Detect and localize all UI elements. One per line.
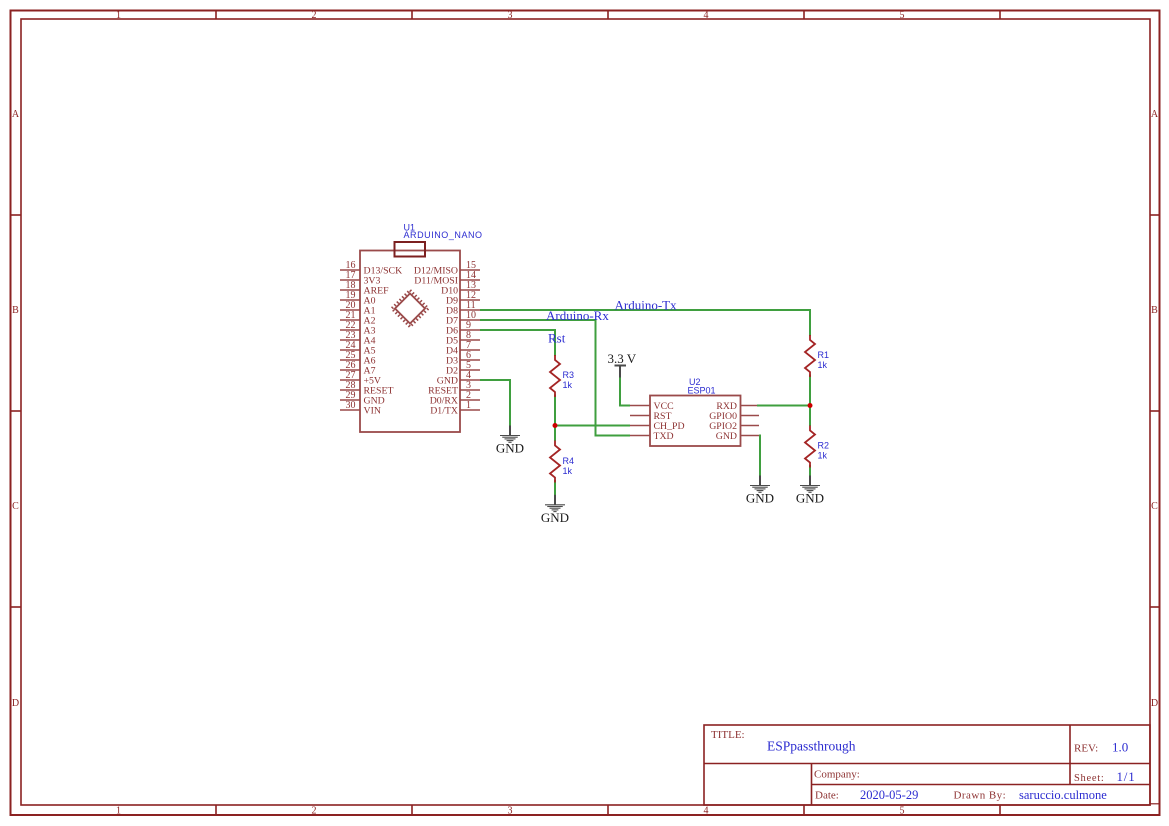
U1 pins [340, 270, 480, 410]
svg-text:Rst: Rst [548, 331, 566, 346]
op-amp U1 ARDUINO_NANO body [360, 251, 460, 433]
resistor R3 1k [550, 355, 560, 397]
svg-text:GND: GND [541, 510, 569, 525]
svg-text:TXD: TXD [654, 431, 674, 442]
ground under Arduino pin4 [509, 426, 511, 436]
svg-text:1: 1 [116, 806, 121, 817]
ground under R2 [809, 476, 811, 486]
svg-text:A: A [1151, 109, 1159, 120]
svg-text:1: 1 [466, 400, 471, 411]
svg-text:2: 2 [312, 10, 317, 21]
svg-text:ARDUINO_NANO: ARDUINO_NANO [404, 230, 483, 240]
resistor R1 1k [805, 335, 815, 377]
wire R2 bottom to ground [809, 465, 811, 476]
svg-text:R3: R3 [563, 370, 575, 380]
ground under R4 [554, 495, 556, 505]
wire Arduino-Rx D7 to TXD [480, 320, 630, 436]
svg-text:C: C [1151, 501, 1158, 512]
svg-text:3: 3 [508, 10, 513, 21]
svg-text:ESP01: ESP01 [688, 386, 716, 396]
wire ESP GND pin to ground [759, 436, 760, 477]
wire Arduino-Tx D8 to R1 [480, 310, 810, 336]
U1 usb notch [395, 242, 426, 257]
svg-text:4: 4 [704, 806, 709, 817]
svg-text:Arduino-Tx: Arduino-Tx [615, 298, 678, 313]
svg-text:1k: 1k [563, 466, 573, 476]
svg-text:D: D [1151, 698, 1158, 709]
resistor R4 1k [550, 441, 560, 483]
svg-text:C: C [12, 501, 19, 512]
svg-text:Company:: Company: [814, 769, 860, 781]
U2 pin names [654, 401, 738, 442]
wire junction to CH_PD [555, 425, 630, 427]
U2 pins [630, 406, 759, 436]
svg-text:R2: R2 [818, 441, 830, 451]
svg-text:A: A [12, 109, 20, 120]
U1 pin names [364, 265, 459, 416]
wire GND pin4 to ground [480, 380, 510, 426]
svg-text:D: D [12, 698, 19, 709]
svg-text:VIN: VIN [364, 405, 381, 416]
U1 pin numbers [346, 260, 477, 411]
svg-text:Arduino-Rx: Arduino-Rx [546, 308, 609, 323]
U2 ESP01 body [650, 396, 741, 447]
resistor R2 1k [805, 426, 815, 468]
svg-text:1k: 1k [563, 380, 573, 390]
svg-text:GND: GND [496, 441, 524, 456]
svg-text:ESPpassthrough: ESPpassthrough [767, 739, 856, 754]
svg-text:4: 4 [704, 10, 709, 21]
ground under ESP GND [759, 476, 761, 486]
svg-text:5: 5 [900, 806, 905, 817]
svg-text:Sheet:: Sheet: [1074, 773, 1104, 784]
svg-text:1.0: 1.0 [1112, 740, 1128, 755]
wire 3.3V to VCC [620, 377, 630, 406]
svg-text:GND: GND [716, 431, 737, 442]
svg-text:2: 2 [312, 806, 317, 817]
svg-text:saruccio.culmone: saruccio.culmone [1019, 788, 1107, 802]
U1 reference labels [404, 223, 483, 241]
wire R4 bottom to ground [554, 480, 556, 495]
wire R3 bottom to junction to R4 [554, 395, 556, 442]
svg-text:1/1: 1/1 [1117, 769, 1136, 784]
svg-text:3.3 V: 3.3 V [608, 351, 637, 366]
title block text [711, 729, 1136, 802]
svg-text:Drawn By:: Drawn By: [954, 790, 1007, 802]
svg-text:B: B [12, 305, 19, 316]
svg-text:GND: GND [796, 491, 824, 506]
svg-text:1k: 1k [818, 451, 828, 461]
svg-text:TITLE:: TITLE: [711, 729, 745, 741]
node junction R1 R2 RXD [808, 403, 813, 408]
svg-text:R1: R1 [818, 350, 830, 360]
wire Rst D6 to R3 [480, 330, 555, 356]
svg-text:5: 5 [900, 10, 905, 21]
svg-text:1k: 1k [818, 360, 828, 370]
svg-text:R4: R4 [563, 456, 575, 466]
U1 chip diamond icon [392, 290, 428, 326]
3.3V supply symbol [615, 366, 627, 378]
wire R1 bottom to R2 top [809, 375, 811, 427]
svg-text:30: 30 [346, 400, 356, 411]
svg-text:3: 3 [508, 806, 513, 817]
svg-text:1: 1 [116, 10, 121, 21]
svg-text:2020-05-29: 2020-05-29 [860, 788, 918, 802]
svg-text:Date:: Date: [815, 790, 839, 802]
wire RXD to junction R1 R2 [757, 405, 810, 407]
title block [704, 725, 1150, 805]
node junction R3 R4 CH_PD [553, 423, 558, 428]
svg-text:B: B [1151, 305, 1158, 316]
U2 reference labels [688, 377, 716, 396]
svg-text:REV:: REV: [1074, 743, 1098, 755]
svg-text:D1/TX: D1/TX [430, 405, 458, 416]
svg-text:GND: GND [746, 491, 774, 506]
